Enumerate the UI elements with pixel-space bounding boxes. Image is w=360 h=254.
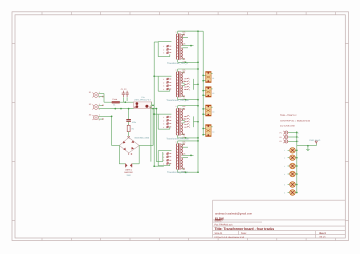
wire S3 to bus <box>295 165 297 167</box>
wire <box>152 104 155 106</box>
wire K3 pin 1 <box>203 108 205 110</box>
wire S1 to bus <box>295 149 297 151</box>
svg-text:3300: 3300 <box>126 174 130 177</box>
connector X2 (mains plug) <box>92 105 98 110</box>
svg-text:4: 4 <box>163 126 164 129</box>
wire T4 conn loop vertical <box>157 151 159 166</box>
svg-text:andreas.busalmak@gmail.com: andreas.busalmak@gmail.com <box>215 212 253 215</box>
output module K2 <box>206 87 212 97</box>
svg-text:2: 2 <box>163 119 164 122</box>
transformer T2 primary winding <box>175 72 178 97</box>
wire filter out top <box>151 102 153 105</box>
socket S3 <box>290 163 296 169</box>
wire K3 out <box>211 106 213 108</box>
svg-text:1: 1 <box>99 114 100 117</box>
svg-text:1: 1 <box>163 45 164 48</box>
wire T2 sec top pin <box>182 71 184 73</box>
wire K3 pin 2 <box>203 113 205 115</box>
junction <box>202 134 204 136</box>
svg-text:P3: P3 <box>280 140 282 143</box>
wire T1 top pin <box>177 31 179 34</box>
transformer T3 primary winding <box>175 108 178 135</box>
wire bus stub T1 <box>154 41 158 43</box>
svg-text:C2: C2 <box>212 92 214 95</box>
svg-text:TR/B = TRAFO-2: TR/B = TRAFO-2 <box>280 114 297 117</box>
wire plug pin 2 stub <box>99 104 103 106</box>
junction <box>111 116 113 118</box>
wire T4 sec top pin <box>182 143 184 145</box>
wire bridge right down <box>138 146 140 164</box>
wire T4 top to bus <box>178 140 198 142</box>
connector J1 (aux plug) <box>283 131 288 134</box>
connector J2 (aux plug) <box>283 135 288 138</box>
wire T2 top to bus <box>178 68 198 70</box>
junction <box>185 171 187 173</box>
wire T1 top long <box>178 30 204 32</box>
wire T3 top to bus <box>178 105 198 107</box>
junction <box>202 113 204 115</box>
junction <box>124 101 126 103</box>
wire T3 sec pin b <box>182 122 185 124</box>
wire <box>132 163 139 165</box>
junction <box>197 83 199 85</box>
wire J1 to bus <box>288 132 297 134</box>
junction <box>185 99 187 101</box>
wire right bus 1 <box>197 31 199 172</box>
wire T3 sec top pin <box>182 108 184 110</box>
wire PWR_FLAG stub <box>315 143 317 146</box>
svg-text:3: 3 <box>163 85 164 88</box>
pin marks T1 <box>176 34 185 60</box>
wire bus A to T4 bottom <box>154 165 164 167</box>
junction <box>202 80 204 82</box>
wire S4 left stub <box>288 173 290 175</box>
capacitor C1 <box>122 91 125 97</box>
diode D2 <box>130 164 132 168</box>
wire K4 pin 2 <box>203 134 205 136</box>
wire plug pin 2 stub <box>99 118 103 120</box>
svg-text:230V_PRIM_FILT: 230V_PRIM_FILT <box>134 99 151 102</box>
capacitor C3 100n <box>126 120 131 122</box>
wire T3 top pin <box>177 106 179 109</box>
svg-text:C1: C1 <box>212 77 214 80</box>
wire bus stub T3 <box>154 113 158 115</box>
wire bridge right <box>139 145 153 147</box>
svg-text:1: 1 <box>176 140 177 143</box>
junction <box>197 137 199 139</box>
wire S3 left stub <box>288 165 290 167</box>
frame row ticks <box>12 44 349 221</box>
connector CON2 terminal rows <box>167 78 172 80</box>
wire T4 bottom to bus <box>178 171 198 173</box>
wire T2 bottom to bus <box>178 99 198 101</box>
wire S5 to bus <box>295 184 297 186</box>
output module K4 <box>206 125 212 137</box>
ground GND1 <box>306 150 310 151</box>
svg-text:GBPC1: GBPC1 <box>125 168 133 171</box>
junction <box>296 184 298 186</box>
wire T2 top pin <box>177 69 179 72</box>
wire J2 to bus <box>288 136 297 138</box>
transformer T1 secondary winding top <box>180 34 183 45</box>
wire filter out bottom <box>152 108 157 110</box>
junction <box>197 171 199 173</box>
junction <box>296 132 298 134</box>
wire S1 left stub <box>288 149 290 151</box>
junction <box>152 108 154 110</box>
socket S2 <box>290 155 296 161</box>
wire T2 right block bus <box>193 79 195 90</box>
diode D1 <box>126 164 128 168</box>
wire up to T4 <box>162 152 164 162</box>
transformer T3 secondary winding top <box>180 109 183 121</box>
svg-text:Rev 0: Rev 0 <box>320 232 327 235</box>
wire T3 right to bus <box>194 121 199 123</box>
junction <box>296 141 298 143</box>
junction <box>296 192 298 194</box>
wire T1 sec pin c <box>182 37 188 39</box>
wire to bridge left <box>112 145 120 147</box>
wire K2 pin 1 <box>203 90 205 92</box>
socket S1 <box>290 148 296 154</box>
junction <box>153 113 155 115</box>
transformer T4 core <box>179 143 180 170</box>
wire right column bus <box>296 131 298 192</box>
svg-text:2: 2 <box>163 48 164 51</box>
transformer T2 secondary winding top <box>180 72 183 83</box>
capacitor C2 <box>126 91 129 97</box>
wire T4 sec pin b <box>182 157 188 159</box>
svg-text:Fra: TRAFO2.sch: Fra: TRAFO2.sch <box>215 223 234 226</box>
svg-text:B40C800_3300: B40C800_3300 <box>135 136 150 139</box>
wire T2 bottom pin <box>177 97 179 100</box>
wire C1 down <box>122 97 124 102</box>
wire to ground <box>307 146 309 150</box>
wire <box>111 116 113 145</box>
svg-text:4: 4 <box>163 162 164 165</box>
transformer T2 core <box>179 71 180 97</box>
transformer T4 secondary winding bottom <box>180 158 183 169</box>
wire T4 conn loop stub <box>169 164 171 166</box>
svg-text:Sheet: /: Sheet: / <box>215 220 223 223</box>
wire S4 to bus <box>295 173 297 175</box>
wire T1 top to bus <box>178 30 198 32</box>
connector J3 (aux plug) <box>283 140 288 143</box>
svg-text:C3: C3 <box>212 111 214 114</box>
connector CON3 terminal rows <box>167 116 172 118</box>
wire S2 left stub <box>288 157 290 159</box>
bridge rectifier B1 <box>119 138 139 153</box>
wire bus stub T2 <box>154 75 158 77</box>
junction <box>296 149 298 151</box>
svg-text:1: 1 <box>163 78 164 81</box>
wire bridge left down <box>118 146 120 164</box>
filter module U1 <box>134 102 152 109</box>
connector X1 (mains plug) <box>92 93 98 98</box>
wire T2 conn loop top <box>158 75 171 77</box>
wire fuse to filter <box>120 101 134 103</box>
wire <box>103 94 105 103</box>
wire K2 out <box>211 88 213 90</box>
wire T4 conn loop top <box>158 150 171 152</box>
wire T3 right block bus <box>193 116 195 127</box>
wire J3 to bus <box>288 140 297 142</box>
svg-text:C4: C4 <box>212 131 214 134</box>
junction <box>202 90 204 92</box>
junction <box>307 145 309 147</box>
output module K1 <box>206 72 212 83</box>
wire X2 to filter <box>99 108 134 110</box>
connector X3 (mains plug) <box>92 115 98 120</box>
wire T3 bottom to bus <box>178 137 198 139</box>
wire T3 conn loop bottom <box>158 128 170 130</box>
wire T4 sec pin c <box>182 146 188 148</box>
transformer T1 core <box>179 34 180 60</box>
junction <box>296 157 298 159</box>
wire K2 pin 2 <box>203 94 205 96</box>
output module K3 <box>206 105 212 116</box>
wire T4 bottom pin <box>177 169 179 172</box>
transformer T2 secondary winding bottom <box>180 85 183 96</box>
wire K1 out <box>211 73 213 75</box>
wire T1 bottom pin <box>177 60 179 63</box>
socket S4 <box>290 171 296 177</box>
svg-text:Date:: Date: <box>241 232 247 235</box>
pin marks T2 <box>176 72 185 98</box>
junction <box>202 108 204 110</box>
transformer T1 secondary winding bottom <box>180 48 183 59</box>
socket S6 <box>290 190 296 196</box>
wire down to C3 <box>128 109 130 120</box>
wire T3 conn loop vertical <box>157 114 159 129</box>
wire T4 sec pin a <box>182 154 193 156</box>
svg-text:Title: Transformer board - f: Title: Transformer board - four tracks <box>215 227 275 231</box>
junction <box>197 105 199 107</box>
junction <box>197 121 199 123</box>
connector CON1 terminal rows <box>167 45 172 47</box>
svg-text:2: 2 <box>163 156 164 159</box>
node bridge + terminal <box>128 136 130 138</box>
junction <box>197 68 199 70</box>
svg-text:PWR_FLAG: PWR_FLAG <box>309 139 320 142</box>
wire T2 conn loop bottom <box>158 90 170 92</box>
svg-text:1: 1 <box>176 31 177 34</box>
wire bus C <box>150 105 152 161</box>
junction <box>197 30 199 32</box>
wire plug pin 2 stub <box>99 96 103 98</box>
transformer T1 primary winding <box>175 34 178 60</box>
socket S5 <box>290 182 296 188</box>
transformer T3 core <box>179 108 180 136</box>
wire T2 sec pin b <box>182 84 185 86</box>
wire T2 right to bus <box>194 83 199 85</box>
wire R1 to bridge <box>128 132 130 137</box>
pin marks T4 <box>176 143 185 169</box>
wire T2 conn loop vertical <box>157 76 159 91</box>
svg-text:C1 C2: C1 C2 <box>121 88 128 91</box>
wire right bus 2 <box>202 31 204 135</box>
resistor R1 <box>127 125 130 131</box>
wire T3 sec bot pin <box>182 134 184 136</box>
svg-text:1: 1 <box>163 153 164 156</box>
pin marks T3 <box>176 108 185 135</box>
wire C2 down <box>126 97 128 101</box>
junction <box>120 108 122 110</box>
svg-text:B40C800: B40C800 <box>124 171 133 174</box>
wire up to filter net <box>152 109 154 146</box>
svg-text:09 1/1: 09 1/1 <box>320 236 327 239</box>
wire C3 to R1 <box>128 122 130 126</box>
wire T2 sec pin a <box>182 82 185 84</box>
junction <box>152 104 154 106</box>
wire S2 to bus <box>295 157 297 159</box>
wire bus D <box>155 109 157 162</box>
wire T3 conn loop stub <box>169 127 171 129</box>
junction <box>153 165 155 167</box>
svg-text:2x2 12VA 0.5W: 2x2 12VA 0.5W <box>280 124 296 127</box>
svg-text:1: 1 <box>176 69 177 72</box>
wire K1 pin 1 <box>203 74 205 76</box>
wire T1 conn loop vertical <box>157 42 159 57</box>
junction <box>156 108 158 110</box>
wire S6 to bus <box>295 192 297 194</box>
junction <box>197 61 199 63</box>
svg-text:1: 1 <box>176 105 177 108</box>
wire T1 sec bot pin <box>182 58 184 60</box>
junction <box>185 61 187 63</box>
svg-text:EFGxxl 5.5.0 sheet/name 5.50: EFGxxl 5.5.0 sheet/name 5.50 <box>215 236 245 239</box>
wire T4 sec bot pin <box>182 168 184 170</box>
junction <box>202 94 204 96</box>
junction <box>202 75 204 77</box>
svg-text:3: 3 <box>163 159 164 162</box>
wire <box>119 163 125 165</box>
connector block right of T3 <box>184 115 188 127</box>
svg-text:Size A4: Size A4 <box>215 232 224 235</box>
wire S6 left stub <box>288 192 290 194</box>
svg-text:P1: P1 <box>280 131 282 134</box>
wire S5 left stub <box>288 184 290 186</box>
wire plug X3 to bridge <box>99 115 112 117</box>
junction <box>202 128 204 130</box>
wire K4 out <box>211 126 213 128</box>
wire T4 top pin <box>177 141 179 144</box>
wire T1 sec top pin <box>182 33 184 35</box>
svg-text:100n: 100n <box>132 121 136 124</box>
junction <box>114 108 116 110</box>
transformer T4 primary winding <box>175 144 178 170</box>
connector block right of T2 <box>184 78 188 90</box>
wire T2 sec bot pin <box>182 96 184 98</box>
transformer T3 secondary winding bottom <box>180 123 183 135</box>
wire T1 conn loop stub <box>169 54 171 56</box>
wire T1 sec pin b <box>182 47 188 49</box>
junction <box>153 75 155 77</box>
wire to fuse <box>104 101 112 103</box>
wire T1 conn loop bottom <box>158 56 170 58</box>
svg-text:4: 4 <box>163 88 164 91</box>
connector CON4 terminal rows <box>167 153 172 155</box>
wire bus A lower <box>153 105 155 166</box>
junction <box>185 137 187 139</box>
svg-text:3: 3 <box>163 52 164 55</box>
junction <box>190 155 192 157</box>
wire K4 pin 1 <box>203 128 205 130</box>
wire K1 pin 2 <box>203 80 205 82</box>
svg-text:3: 3 <box>163 123 164 126</box>
junction <box>296 165 298 167</box>
junction <box>190 45 192 47</box>
wire T3 bottom pin <box>177 135 179 138</box>
junction <box>197 140 199 142</box>
junction <box>197 99 199 101</box>
svg-text:P2: P2 <box>280 136 282 139</box>
svg-text:2: 2 <box>163 81 164 84</box>
svg-text:CON7/TOP AC = SBA22A 9x15: CON7/TOP AC = SBA22A 9x15 <box>280 119 311 122</box>
wire bus A upper <box>153 42 155 105</box>
wire plug X1 pin <box>99 93 105 95</box>
wire T3 conn loop top <box>158 113 171 115</box>
wire T1 conn loop top <box>158 41 171 43</box>
frame column ticks <box>42 12 336 241</box>
svg-text:1: 1 <box>163 116 164 119</box>
junction <box>296 136 298 138</box>
wire T1 sec pin a <box>182 45 193 47</box>
fuse F1 <box>112 101 120 103</box>
title block outline <box>213 200 346 238</box>
junction <box>128 108 130 110</box>
wire to PWR_FLAG <box>297 145 317 147</box>
transformer T4 secondary winding top <box>180 144 183 155</box>
junction <box>296 173 298 175</box>
wire T1 bottom to bus <box>178 61 198 63</box>
wire T4 conn loop bottom <box>158 165 170 167</box>
wire <box>156 161 162 163</box>
wire T2 conn loop stub <box>169 89 171 91</box>
wire T3 sec pin a <box>182 120 185 122</box>
